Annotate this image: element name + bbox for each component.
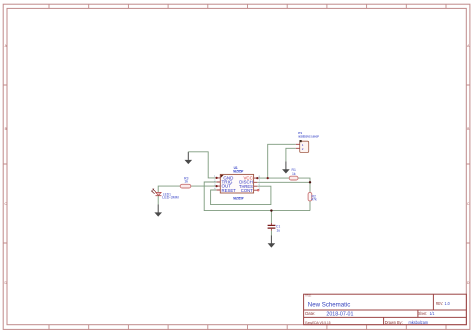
svg-text:1k: 1k	[184, 180, 188, 184]
IC U1 NE555P	[214, 166, 260, 200]
svg-text:REV:: REV:	[436, 301, 443, 306]
junction dot U1 GND pin	[216, 177, 218, 179]
svg-text:RESET: RESET	[222, 188, 237, 193]
capacitor C1	[268, 224, 281, 232]
svg-text:EasyEDA V5.5.15: EasyEDA V5.5.15	[305, 320, 331, 325]
svg-text:TITLE:: TITLE:	[305, 294, 311, 298]
junction dot bottom net / C1 branch	[270, 209, 272, 211]
ground symbol G2 (below LED1)	[154, 205, 162, 217]
svg-text:Sheet:: Sheet:	[418, 311, 427, 316]
wire: P1 pin1 to VCC rail	[268, 144, 296, 178]
row letters right A B C D	[467, 44, 470, 285]
wire: G1 to U1 GND pin	[188, 152, 216, 178]
svg-text:Date:: Date:	[305, 311, 315, 316]
wire: P1 pin2 to ground	[286, 148, 296, 161]
wire: VCC rail through R1 to DISCH node	[257, 178, 310, 211]
junction dot DISCH / R2 node	[309, 181, 311, 183]
resistor R2	[308, 192, 317, 201]
wire: OUT to LED via R3	[158, 186, 216, 192]
resistor R3	[180, 177, 191, 189]
ground symbol G4 (below C1)	[268, 235, 276, 247]
wire: DISCH pin to R2 top node	[257, 181, 310, 183]
svg-text:NE555P: NE555P	[233, 196, 244, 200]
svg-text:1u: 1u	[276, 229, 280, 233]
ground symbol G1 (top, to U1 GND pin)	[185, 152, 193, 164]
svg-text:CONT: CONT	[241, 188, 253, 193]
connector P1	[296, 131, 319, 153]
junction dot U1 OUT pin	[216, 185, 218, 187]
wire: TRIG loop (U1 TRIG to bottom net)	[204, 182, 310, 211]
svg-text:Drawn By:: Drawn By:	[385, 320, 403, 325]
sheet frame ticks bottom	[49, 325, 446, 330]
svg-text:1/1: 1/1	[430, 311, 435, 316]
svg-text:2018-07-01: 2018-07-01	[326, 311, 353, 317]
ground symbol G3 (below P1 pin2)	[282, 161, 290, 173]
wire: LED cathode to ground	[157, 196, 159, 205]
sheet frame ticks right	[467, 85, 471, 243]
sheet frame ticks left	[4, 85, 8, 243]
resistor R1	[289, 168, 298, 180]
wire: bottom net to C1	[270, 211, 272, 224]
svg-text:1.0: 1.0	[445, 301, 451, 306]
unconnected pin marker U1 CONT	[257, 189, 259, 191]
svg-text:LED-3MM: LED-3MM	[162, 196, 178, 200]
wire: RESET to THRES loop	[211, 186, 271, 204]
junction dot VCC rail / P1 branch	[267, 177, 269, 179]
row letters left A B C D	[4, 44, 7, 285]
svg-text:NE555P: NE555P	[233, 169, 244, 173]
LED LED1	[151, 189, 179, 200]
junction dot U1 VCC pin	[256, 177, 258, 179]
svg-text:47k: 47k	[311, 198, 317, 202]
svg-text:WJ2EDGVC-5.08-2P: WJ2EDGVC-5.08-2P	[298, 134, 318, 138]
title block texts	[305, 294, 450, 325]
svg-text:New Schematic: New Schematic	[308, 302, 351, 309]
svg-text:mksbolzam: mksbolzam	[409, 320, 429, 325]
wire: C1 to ground	[270, 228, 272, 231]
svg-text:1k: 1k	[292, 172, 296, 176]
sheet frame ticks top	[49, 4, 446, 8]
